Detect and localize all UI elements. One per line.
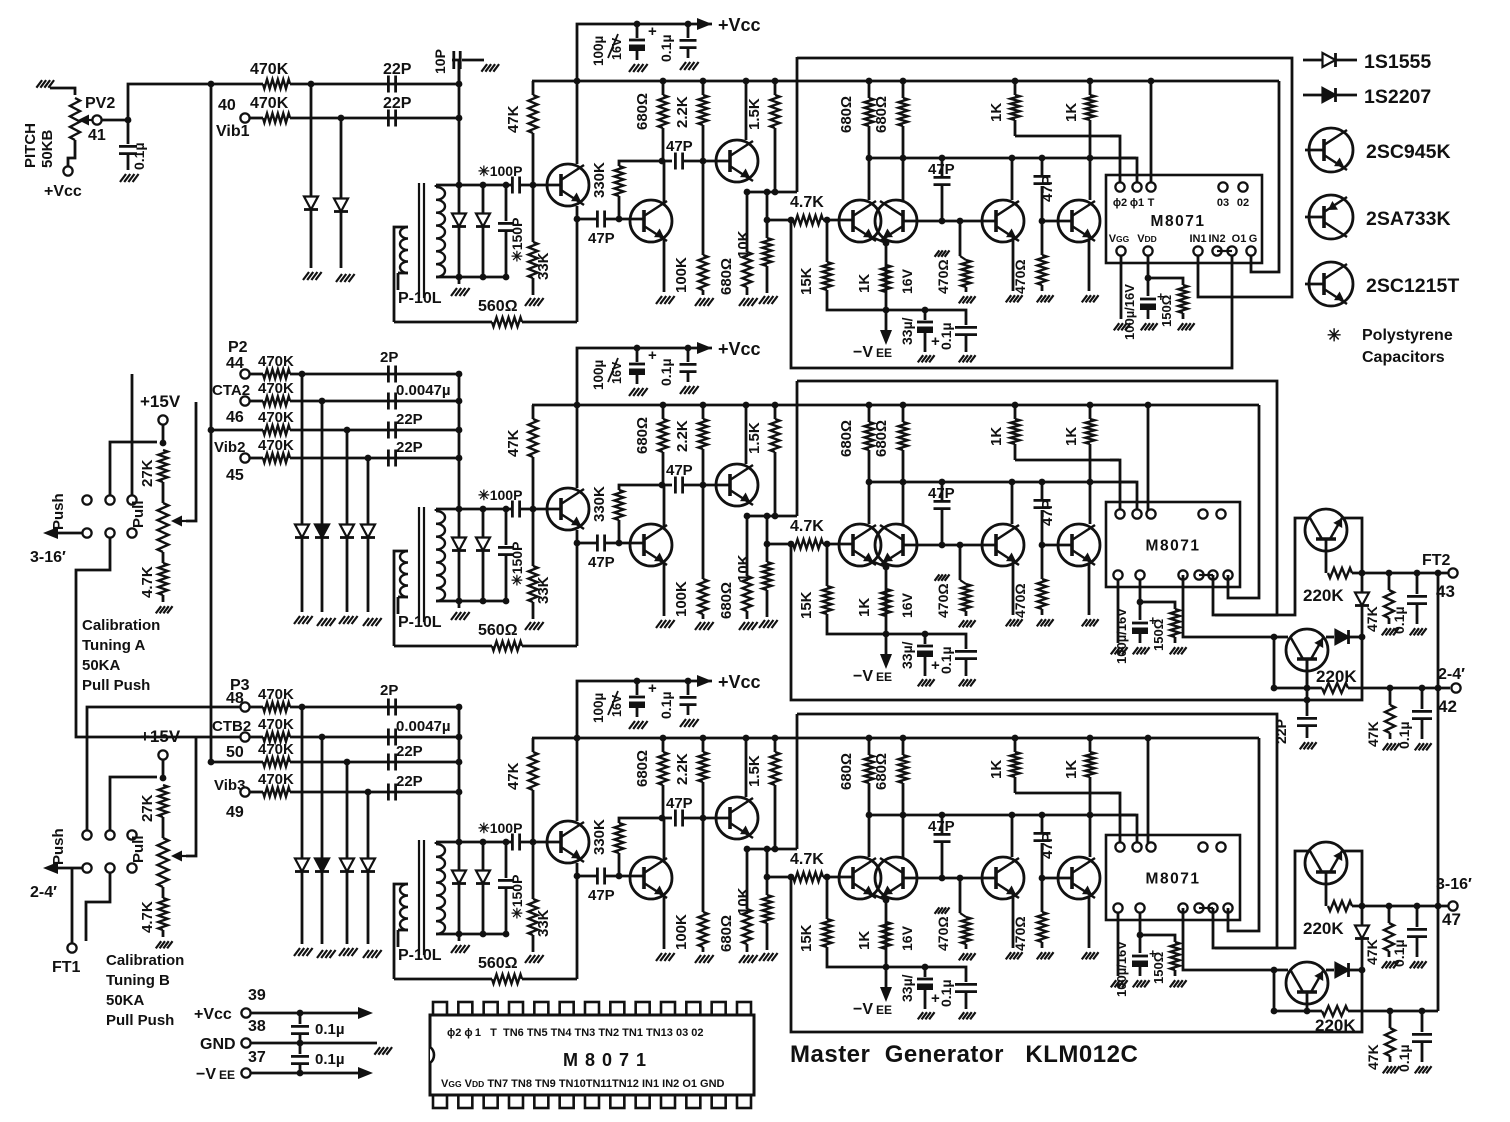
ground 10K ch3	[759, 953, 765, 961]
node emitter Q1 ch1	[574, 216, 581, 223]
capacitor 33u/16V ch3	[886, 966, 925, 969]
ground 10P	[481, 64, 487, 72]
wire caps to osc ch2	[458, 374, 461, 509]
svg-text:Pull: Pull	[130, 835, 147, 863]
resistor 680&#937;-4 ch2	[902, 405, 905, 422]
svg-text:+Vcc: +Vcc	[718, 339, 761, 359]
ground VGG ch1	[1114, 323, 1119, 330]
resistor 470K ch2-c	[211, 429, 263, 432]
wire wiper riser B	[186, 737, 196, 856]
capacitor 10P top	[452, 60, 459, 84]
ground 470-2 ch1	[1037, 295, 1042, 302]
node 22P join	[456, 81, 463, 88]
diode ch3-2 1S2207	[321, 737, 324, 858]
svg-text:FT1: FT1	[52, 959, 81, 976]
terminal FT2 43 ch2	[1448, 568, 1457, 577]
svg-text:47K: 47K	[1365, 1044, 1381, 1070]
resistor 2.2K ch1	[702, 81, 705, 95]
svg-text:Tuning A: Tuning A	[82, 637, 145, 654]
svg-text:✳100P: ✳100P	[478, 163, 522, 179]
node emitter Q1 ch3	[574, 873, 581, 880]
node 15K tap ch3	[824, 874, 831, 881]
pin bottom 5 ch2	[1223, 570, 1232, 579]
svg-text:−V: −V	[196, 1066, 216, 1083]
resistor 220K out2 ch3	[1274, 1010, 1322, 1013]
capacitor 2P ch3	[387, 699, 390, 716]
wire Q3 emitter ch1	[744, 191, 797, 194]
svg-text:100K: 100K	[673, 581, 690, 617]
capacitor 0.1u bypass-1	[299, 1013, 302, 1024]
wire out1 emitter ch2	[1342, 518, 1362, 573]
resistor 330K ch1	[618, 202, 621, 219]
transistor Q out-1 ch3	[1305, 842, 1347, 884]
power +Vcc ch3	[697, 675, 712, 687]
svg-text:0.1µ: 0.1µ	[131, 142, 147, 170]
svg-text:1K: 1K	[856, 931, 873, 950]
svg-text:41: 41	[88, 127, 106, 144]
node Q3 base ch3	[700, 815, 707, 822]
svg-text:33µ/: 33µ/	[899, 974, 915, 1002]
wire +Vcc mini rail ch2	[577, 348, 712, 405]
wire FT1 riser	[71, 868, 74, 943]
svg-text:1.5K: 1.5K	[746, 755, 763, 787]
capacitor 47P interstage ch3	[662, 817, 672, 820]
resistor 1.5K ch1	[774, 81, 777, 95]
svg-text:38: 38	[248, 1018, 266, 1035]
transistor Q osc-3 ch2	[716, 464, 758, 506]
resistor 47K out-top ch3	[1386, 903, 1393, 910]
resistor 33K ch3	[532, 842, 535, 899]
capacitor 0.1u amp ch3	[925, 967, 966, 982]
svg-text:4.7K: 4.7K	[790, 851, 824, 868]
svg-text:3-16′: 3-16′	[1436, 876, 1472, 893]
svg-text:2P: 2P	[380, 682, 398, 699]
svg-text:15K: 15K	[798, 924, 815, 952]
svg-text:✳150P: ✳150P	[509, 875, 525, 919]
wire Q2 collector ch1	[663, 161, 666, 204]
svg-text:M8071: M8071	[1146, 871, 1201, 888]
ground VDD ch2	[1133, 647, 1138, 654]
svg-text:16V: 16V	[899, 925, 915, 951]
ground 470-1 ch3	[959, 953, 964, 960]
ground 10K ch2	[759, 620, 765, 628]
svg-text:27K: 27K	[139, 459, 156, 487]
svg-text:1K: 1K	[988, 103, 1005, 122]
wire VGG ch1	[1120, 255, 1123, 319]
svg-text:330K: 330K	[591, 486, 608, 522]
pin top 7 DIP	[585, 1002, 599, 1015]
wire Q3 emitter ch3	[744, 848, 797, 851]
svg-text:47K: 47K	[505, 105, 522, 133]
svg-text:0.1µ: 0.1µ	[658, 358, 674, 386]
svg-text:680Ω: 680Ω	[838, 96, 855, 133]
wire Q2 collector ch3	[663, 818, 666, 861]
svg-text:0.1µ: 0.1µ	[658, 34, 674, 62]
wire phi2 bus ch3	[1015, 792, 1119, 795]
ground 150 ch3	[1170, 980, 1175, 987]
svg-text:46: 46	[226, 409, 244, 426]
wire phi1 riser ch1	[1120, 158, 1137, 183]
svg-text:2.2K: 2.2K	[674, 96, 691, 128]
wire Q2 collector ch2	[663, 485, 666, 528]
svg-text:47P: 47P	[666, 138, 693, 155]
pin bottom 4 ch1	[1227, 246, 1236, 255]
resistor 47K out-bot ch3	[1387, 1008, 1394, 1015]
wire +Vcc mini rail ch1	[577, 24, 712, 81]
wire out2 base ch2	[1306, 659, 1309, 688]
transistor Q amp-3 ch1	[982, 200, 1024, 242]
transistor Q amp-2 ch3	[875, 857, 917, 899]
diode osc A ch3	[458, 842, 461, 870]
op-amp U M8071 ch1 box	[1106, 175, 1262, 263]
diode out2 ch2	[1326, 636, 1334, 639]
svg-text:100µ/16V: 100µ/16V	[1114, 608, 1129, 664]
svg-text:100µ: 100µ	[591, 36, 606, 66]
pin &#981;1 ch1	[1132, 182, 1141, 191]
diode osc B ch2	[482, 509, 485, 537]
svg-text:33µ/: 33µ/	[899, 641, 915, 669]
svg-text:45: 45	[226, 467, 244, 484]
wire collector bus ch3	[869, 814, 1136, 817]
resistor 100K ch3	[702, 818, 705, 912]
svg-text:GND: GND	[200, 1036, 236, 1053]
transistor Q osc-2 ch3	[630, 857, 672, 899]
capacitor 0.1u amp ch2	[925, 634, 966, 649]
svg-text:100µ: 100µ	[591, 693, 606, 723]
wire osc output ch3	[796, 714, 799, 849]
svg-text:560Ω: 560Ω	[478, 622, 518, 639]
svg-text:0.1µ: 0.1µ	[315, 1021, 345, 1038]
svg-text:P2: P2	[228, 339, 248, 356]
svg-text:680Ω: 680Ω	[838, 420, 855, 457]
svg-text:✳150P: ✳150P	[509, 542, 525, 586]
svg-text:Vib1: Vib1	[216, 123, 250, 140]
transformer P-10L ch1	[418, 183, 420, 298]
svg-text:470Ω: 470Ω	[1012, 259, 1028, 294]
legend diode 1S1555	[1303, 59, 1357, 62]
svg-text:10K: 10K	[735, 887, 752, 915]
wire Q7 base ch1	[1042, 220, 1072, 223]
diode out vertical ch2	[1361, 573, 1364, 592]
ground 47K out-bot ch2	[1383, 743, 1388, 750]
pin bottom 0 ch2	[1113, 570, 1122, 579]
wire pair emitters ch2	[874, 562, 886, 567]
svg-text:560Ω: 560Ω	[478, 298, 518, 315]
ground 33u ch3	[918, 1012, 923, 1019]
wire pair emitters ch1	[874, 238, 886, 243]
ground 470-1 ch2	[959, 620, 964, 627]
svg-text:P-10L: P-10L	[398, 614, 442, 631]
svg-text:−V: −V	[853, 1001, 873, 1018]
capacitor 0.1u out-bot ch2	[1419, 685, 1426, 692]
svg-text:1K: 1K	[1063, 103, 1080, 122]
svg-text:50KB: 50KB	[39, 129, 56, 168]
resistor 470&#937;-2 ch3	[1041, 878, 1044, 912]
resistor 470K ch3-d	[250, 791, 263, 794]
resistor 330K ch3	[618, 859, 621, 876]
svg-text:VDD: VDD	[1137, 233, 1157, 245]
wire Q7 base ch3	[1042, 877, 1072, 880]
capacitor 47P interstage ch2	[662, 484, 672, 487]
diode in ch1-b	[340, 118, 343, 198]
ground 470-2 ch2	[1037, 619, 1042, 626]
wire IN1 drop ch2	[1273, 637, 1276, 688]
resistor 560&#937; ch3	[394, 978, 492, 981]
wire IN1 to output ch3	[1183, 908, 1274, 970]
transistor Q osc-2 ch1	[630, 200, 672, 242]
svg-text:47P: 47P	[1039, 175, 1056, 202]
svg-text:1K: 1K	[1063, 760, 1080, 779]
svg-text:0.1µ: 0.1µ	[1391, 939, 1407, 967]
svg-text:EE: EE	[876, 1003, 892, 1017]
svg-text:ϕ2: ϕ2	[1113, 197, 1127, 209]
wire IN2-O1 link ch3	[1199, 907, 1213, 909]
svg-text:47P: 47P	[928, 485, 955, 502]
resistor 470K ch1-a	[211, 83, 263, 86]
resistor 47K ch2	[532, 405, 535, 419]
ic M8071 DIP package	[430, 1015, 754, 1095]
svg-text:150Ω: 150Ω	[1151, 952, 1166, 984]
svg-text:47K: 47K	[1364, 606, 1380, 632]
svg-text:0.0047µ: 0.0047µ	[396, 382, 451, 399]
ground Q7 ch1	[1082, 295, 1087, 302]
pin bottom 1 DIP	[433, 1095, 447, 1108]
svg-text:03: 03	[1217, 197, 1229, 209]
svg-text:2SA733K: 2SA733K	[1366, 208, 1451, 230]
op-amp U M8071 ch2 box	[1106, 502, 1240, 587]
svg-text:ϕ1: ϕ1	[1130, 197, 1144, 209]
capacitor 100u/16V U ch1	[1147, 255, 1150, 296]
ground 0.1u out-bot ch3	[1415, 1066, 1420, 1073]
diode out2 ch3	[1326, 969, 1334, 972]
capacitor 0.1u ch2 top	[687, 348, 690, 362]
svg-text:470K: 470K	[250, 61, 289, 78]
resistor 47K ch3	[532, 738, 535, 752]
pin bottom 8 DIP	[610, 1095, 624, 1108]
resistor 680&#937;-3 ch2	[868, 405, 871, 422]
ground transformer ch1	[458, 277, 461, 284]
resistor 1.5K ch2	[774, 405, 777, 419]
ground 33K ch3	[525, 955, 531, 963]
svg-text:0.1µ: 0.1µ	[938, 646, 954, 674]
wire Q7 emitter ch1	[1088, 240, 1091, 291]
svg-text:Push: Push	[50, 828, 67, 865]
pin &#981;1 ch2	[1132, 509, 1141, 518]
pin bottom 2 ch1	[1193, 246, 1202, 255]
diode ch3-4	[367, 792, 370, 858]
ground diode b	[336, 274, 342, 282]
ground 0.1u pitch	[120, 174, 126, 182]
wire out1 collector ch2	[1215, 518, 1310, 615]
svg-text:47P: 47P	[588, 230, 615, 247]
svg-text:22P: 22P	[383, 61, 412, 78]
resistor 10K ch3	[766, 849, 769, 895]
transistor Q amp-1 ch2	[839, 524, 881, 566]
svg-text:✳: ✳	[1327, 326, 1341, 345]
ground 100u ch2	[629, 388, 635, 396]
pin top 4 DIP	[509, 1002, 523, 1015]
capacitor 47P fb-2 ch1	[1041, 186, 1044, 221]
svg-text:0.1µ: 0.1µ	[938, 979, 954, 1007]
capacitor 0.0047u ch2	[387, 393, 390, 410]
pin T ch3	[1146, 842, 1155, 851]
resistor 2.2K ch3	[702, 738, 705, 752]
svg-text:330K: 330K	[591, 162, 608, 198]
resistor 4.7K ch2	[767, 543, 793, 546]
ground 0.1u ch2	[680, 386, 686, 394]
resistor 1K tail ch1	[881, 265, 890, 292]
svg-text:15K: 15K	[798, 267, 815, 295]
pin bottom 3 ch1	[1212, 246, 1221, 255]
diode ch2-1	[301, 374, 304, 524]
svg-text:50: 50	[226, 744, 244, 761]
svg-text:220K: 220K	[1316, 667, 1357, 686]
resistor 470K ch2-d	[250, 457, 263, 460]
resistor 470K ch3-c	[211, 761, 263, 764]
svg-text:47P: 47P	[1039, 499, 1056, 526]
ground Q2 emitter ch2	[656, 620, 662, 628]
wire calA to CTB2	[76, 538, 240, 737]
resistor 15K ch1	[826, 220, 829, 262]
resistor 470K ch3-a	[250, 706, 263, 709]
svg-text:2SC1215T: 2SC1215T	[1366, 275, 1459, 297]
resistor 680&#937;-1 ch2	[662, 405, 665, 419]
pin bottom 5 DIP	[534, 1095, 548, 1108]
ground 680-2 ch3	[739, 955, 745, 963]
pin 03 ch1	[1218, 182, 1227, 191]
svg-text:680Ω: 680Ω	[873, 420, 890, 457]
transistor Q out-2 ch3	[1286, 962, 1328, 1004]
svg-text:Tuning B: Tuning B	[106, 972, 170, 989]
svg-text:47K: 47K	[505, 429, 522, 457]
transistor Q osc-1 2SC945K ch1	[547, 164, 589, 206]
diode out vertical ch3	[1361, 906, 1364, 925]
svg-text:1K: 1K	[988, 427, 1005, 446]
diode osc B ch3	[482, 842, 485, 870]
legend diode 1S2207	[1303, 94, 1357, 97]
svg-text:47K: 47K	[1365, 721, 1381, 747]
diode ch2-4	[367, 458, 370, 524]
resistor 1K-1 ch1	[1014, 81, 1017, 95]
svg-text:220K: 220K	[1303, 919, 1344, 938]
svg-text:−V: −V	[853, 668, 873, 685]
pin top 5 DIP	[534, 1002, 548, 1015]
ground 100K ch3	[695, 955, 701, 963]
resistor 470&#937;-2 ch2	[1041, 545, 1044, 579]
svg-text:PV2: PV2	[85, 95, 115, 112]
pin &#981;2 ch2	[1115, 509, 1124, 518]
svg-text:EE: EE	[219, 1068, 235, 1082]
resistor 1K-1 ch3	[1014, 738, 1017, 752]
svg-text:47P: 47P	[928, 818, 955, 835]
svg-text:680Ω: 680Ω	[718, 258, 735, 295]
svg-text:4.7K: 4.7K	[139, 566, 156, 598]
resistor 33K ch2	[532, 509, 535, 566]
ground VGG ch3	[1111, 980, 1116, 987]
svg-text:16V: 16V	[899, 592, 915, 618]
svg-text:+: +	[648, 347, 657, 364]
svg-text:22P: 22P	[383, 95, 412, 112]
svg-text:4.7K: 4.7K	[139, 901, 156, 933]
wire osc out to IN1 loop ch1	[797, 58, 1292, 297]
resistor 680&#937;-2 ch1	[746, 192, 749, 252]
wire phi2 bus ch2	[1015, 459, 1119, 462]
svg-text:47P: 47P	[666, 462, 693, 479]
ground VDD ch1	[1141, 323, 1146, 330]
wire rail loop to G ch3	[1228, 738, 1259, 931]
svg-text:470K: 470K	[258, 437, 294, 454]
resistor 4.7K cal B	[158, 898, 167, 930]
resistor 560&#937; ch1	[394, 321, 492, 324]
capacitor 47P base ch2	[577, 542, 596, 545]
svg-text:470Ω: 470Ω	[935, 916, 951, 951]
wire phi1 riser ch3	[1120, 815, 1137, 843]
capacitor 22P ch3-a	[387, 754, 390, 771]
wire +Vcc mini rail ch3	[577, 681, 712, 738]
ground cal A	[156, 606, 161, 613]
ground 0.1u ch1	[680, 62, 686, 70]
svg-text:4.7K: 4.7K	[790, 194, 824, 211]
transformer P-10L ch3	[418, 840, 420, 955]
svg-text:22P: 22P	[396, 773, 423, 790]
capacitor 47P base ch1	[577, 218, 596, 221]
svg-text:560Ω: 560Ω	[478, 955, 518, 972]
potentiometer 27K cal A	[162, 425, 165, 440]
svg-text:Pull Push: Pull Push	[82, 677, 150, 694]
wire wiper riser A	[186, 402, 196, 521]
wire out2 base ch3	[1306, 992, 1309, 1011]
ground 680-2 ch1	[739, 298, 745, 306]
svg-text:470Ω: 470Ω	[1012, 916, 1028, 951]
resistor 220K out2 ch2	[1274, 687, 1322, 690]
ground diode a	[303, 272, 309, 280]
svg-text:680Ω: 680Ω	[873, 753, 890, 790]
resistor 1K-2 ch1	[1089, 81, 1092, 95]
pin top 10 DIP	[661, 1002, 675, 1015]
svg-text:1K: 1K	[1063, 427, 1080, 446]
resistor 15K ch2	[826, 544, 829, 586]
ground Q6 emitter ch1	[1006, 295, 1011, 302]
transistor Q out-2 ch2	[1286, 629, 1328, 671]
ground 33K ch1	[525, 298, 531, 306]
wire rail to G loop ch1	[1251, 81, 1279, 272]
transformer P-10L ch2	[418, 507, 420, 622]
resistor 220K out1 ch2	[1325, 539, 1328, 573]
svg-text:VGG: VGG	[1109, 233, 1130, 245]
resistor 470K ch3-b	[250, 736, 263, 739]
wire phi2 riser ch1	[1110, 136, 1120, 183]
diode ch2-3	[346, 430, 349, 524]
capacitor 47P fb-1 ch3	[941, 843, 944, 878]
ground transformer ch2	[458, 601, 461, 608]
capacitor 47P base ch3	[577, 875, 596, 878]
pin bottom 3 ch3	[1194, 903, 1203, 912]
resistor 1K tail ch3	[881, 922, 890, 949]
wire main +Vcc rail ch1	[532, 80, 1279, 83]
wire phi2 bus ch1	[1015, 135, 1119, 138]
ground 0.1u amp ch1	[959, 355, 964, 362]
pin bottom 6 DIP	[560, 1095, 574, 1108]
svg-text:22P: 22P	[396, 439, 423, 456]
svg-text:680Ω: 680Ω	[873, 96, 890, 133]
ground 150 ch1	[1178, 323, 1183, 330]
transistor Q amp-1 ch3	[839, 857, 881, 899]
svg-text:10P: 10P	[432, 49, 448, 74]
resistor 470K ch2-a	[250, 373, 263, 376]
svg-text:47P: 47P	[588, 554, 615, 571]
pin 03 ch2	[1198, 509, 1207, 518]
transistor Q amp-4 ch3	[1058, 857, 1100, 899]
